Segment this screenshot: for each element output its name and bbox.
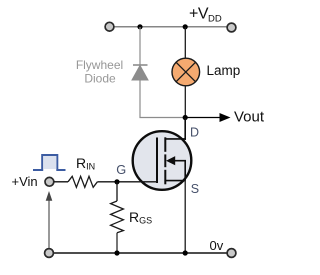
terminal: +VDD right	[227, 23, 236, 32]
svg-text:Diode: Diode	[84, 72, 116, 86]
node: RGS / 0v junction	[114, 250, 119, 255]
mosfet Q1: body arrow to source	[173, 161, 185, 181]
wire: bottom 0v rail	[52, 252, 228, 254]
diode: flywheel diode (cathode bar + triangle)	[132, 65, 148, 80]
wire: RGS to 0v rail	[116, 233, 118, 253]
wire: resistor to gate	[97, 181, 157, 183]
node: Vout junction	[183, 115, 188, 120]
wire: source to 0v rail	[184, 181, 186, 253]
wire: lamp to drain	[184, 86, 186, 140]
wire: flywheel diode branch (vertical + corner to Vout node)	[140, 27, 185, 118]
svg-text:D: D	[190, 125, 199, 139]
svg-text:+Vin: +Vin	[12, 174, 38, 189]
resistor RIN (zigzag)	[68, 176, 97, 187]
svg-text:S: S	[191, 182, 199, 196]
terminal: 0v left	[45, 249, 54, 258]
node: diode / VDD junction	[137, 24, 142, 29]
svg-text:Vout: Vout	[234, 109, 265, 126]
wire: junction to RGS	[116, 182, 118, 201]
wire: VDD to lamp	[184, 27, 186, 59]
wire: +Vin terminal to resistor	[54, 181, 68, 183]
mosfet Q1: body circle	[133, 131, 192, 190]
icon: input pulse waveform	[33, 155, 66, 170]
svg-text:0v: 0v	[210, 238, 224, 253]
mosfet Q1: drain connection	[165, 118, 185, 139]
node: source / 0v junction	[183, 250, 188, 255]
resistor RGS (vertical zigzag)	[111, 201, 124, 233]
node: lamp / VDD junction	[183, 24, 188, 29]
svg-text:Lamp: Lamp	[207, 63, 241, 78]
mosfet Q1: source connection	[165, 180, 185, 182]
lamp: indicator lamp symbol	[172, 58, 200, 86]
wire: Vout arrow	[185, 117, 221, 119]
terminal: 0v right	[227, 249, 236, 258]
terminal: +VDD left	[105, 22, 114, 31]
wire: top +VDD rail	[113, 26, 227, 28]
terminal: +Vin input	[45, 177, 54, 186]
arrow: input voltage reference (up arrow)	[48, 198, 50, 248]
mosfet Q1: gate bar	[156, 138, 158, 184]
svg-text:Flywheel: Flywheel	[76, 58, 123, 72]
node: gate / RGS junction	[114, 179, 119, 184]
mosfet Q1: channel (three segments)	[164, 137, 166, 152]
svg-text:G: G	[116, 162, 126, 177]
